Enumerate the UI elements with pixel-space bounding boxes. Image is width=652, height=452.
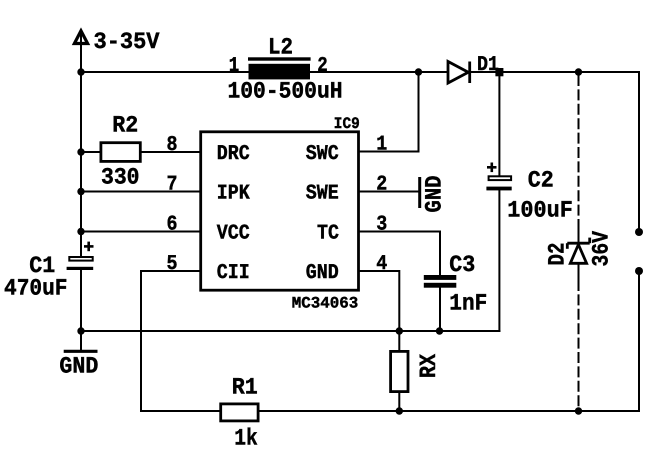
wire: RX branch from mid wire to bottom wire	[398, 331, 400, 411]
svg-text:TC: TC	[317, 222, 339, 245]
svg-text:CII: CII	[217, 262, 250, 285]
wire: top rail L2 left	[81, 71, 249, 73]
svg-text:1: 1	[229, 55, 240, 78]
node: zener branch / bottom wire junction	[575, 407, 582, 414]
svg-text:DRC: DRC	[217, 143, 250, 166]
svg-text:1nF: 1nF	[449, 291, 487, 317]
svg-text:8: 8	[167, 134, 178, 157]
wire: pin 3 TC to C3	[359, 232, 441, 275]
wire: bottom return wire	[141, 410, 639, 412]
wire: pin 6 VCC to rail	[81, 231, 201, 233]
IC9 box MC34063	[201, 132, 359, 290]
svg-text:GND: GND	[422, 175, 448, 212]
wire: right rail to + output terminal	[638, 72, 640, 232]
wire: dashed zener branch upper	[578, 76, 580, 224]
svg-text:C2: C2	[528, 167, 554, 193]
svg-text:6: 6	[167, 214, 178, 237]
node: rail / pin6 junction	[77, 228, 84, 235]
node: pin4 / RX / mid wire junction	[396, 327, 403, 334]
wire: GND stub below C1 junction	[80, 331, 82, 351]
capacitor C1	[67, 242, 94, 270]
svg-text:R2: R2	[112, 113, 138, 139]
svg-text:GND: GND	[306, 262, 339, 285]
terminal: output plus	[635, 228, 643, 236]
wire: zener D2 bottom lead	[578, 264, 580, 282]
wire: mid ground wire	[81, 330, 499, 332]
node: rail / R2 junction	[77, 148, 84, 155]
node: RX / bottom wire junction	[396, 407, 403, 414]
node: rail / pin7 junction	[77, 188, 84, 195]
svg-text:C3: C3	[449, 252, 475, 278]
wire: C2 top lead	[498, 72, 500, 176]
svg-text:5: 5	[167, 253, 178, 276]
svg-text:3-35V: 3-35V	[94, 29, 160, 55]
svg-text:36V: 36V	[589, 231, 615, 267]
svg-text:4: 4	[376, 253, 387, 276]
svg-text:GND: GND	[59, 353, 98, 379]
wire: pin 4 GND down to mid wire	[359, 271, 400, 331]
svg-text:SWC: SWC	[306, 143, 339, 166]
ground symbol (C1)	[64, 350, 98, 353]
svg-text:RX: RX	[416, 354, 442, 378]
svg-text:R1: R1	[232, 375, 258, 401]
wire: pin 1 SWC riser to top rail	[359, 72, 419, 152]
svg-text:IC9: IC9	[334, 115, 360, 133]
wire: pin 8 DRC through R2 to rail	[81, 151, 201, 153]
wire: C3 bottom lead	[439, 288, 441, 332]
resistor RX	[391, 351, 408, 391]
resistor R2	[101, 143, 140, 162]
wire: left input rail	[80, 33, 82, 257]
wire: right rail from - output terminal down	[638, 271, 640, 411]
node: C3 / mid wire junction	[436, 327, 443, 334]
node: C1 bottom / mid wire junction	[77, 327, 84, 334]
svg-text:L2: L2	[268, 35, 293, 61]
wire: D1 cathode to top right corner	[470, 71, 639, 73]
svg-text:VCC: VCC	[217, 222, 250, 245]
svg-text:3: 3	[376, 214, 387, 237]
svg-text:1k: 1k	[234, 426, 258, 452]
svg-text:D2: D2	[545, 243, 571, 266]
zener diode D2	[567, 238, 589, 264]
svg-text:IPK: IPK	[217, 182, 250, 205]
resistor R1	[221, 404, 258, 421]
wire: zener D2 top lead	[578, 224, 580, 244]
node: SWC riser / top wire junction	[415, 68, 422, 75]
capacitor C3	[424, 275, 457, 288]
wire: pin 5 CII to bottom wire	[141, 271, 201, 411]
inductor L2 body	[248, 57, 311, 79]
node: rail / top wire junction	[77, 68, 84, 75]
diode D1	[448, 62, 470, 84]
wire: pin 2 SWE to ground bar	[359, 191, 419, 193]
wire: C1 bottom lead	[80, 270, 82, 332]
wire: L2 to D1 anode	[310, 71, 449, 73]
wire: C2 bottom lead	[498, 191, 500, 332]
ground symbol (pin 2 SWE)	[418, 177, 421, 208]
svg-text:100-500uH: 100-500uH	[228, 79, 343, 105]
node: D1 cathode / C2 junction	[495, 68, 503, 76]
svg-text:7: 7	[167, 174, 178, 197]
svg-text:470uF: 470uF	[4, 276, 68, 302]
node: zener branch top junction	[575, 68, 582, 75]
svg-text:2: 2	[317, 55, 328, 78]
wire: pin 7 IPK to rail	[81, 191, 201, 193]
terminal: output minus	[635, 267, 643, 275]
svg-text:MC34063: MC34063	[292, 295, 359, 313]
capacitor C2	[486, 163, 511, 191]
svg-text:SWE: SWE	[306, 182, 339, 205]
svg-text:1: 1	[376, 134, 387, 157]
svg-text:2: 2	[376, 174, 387, 197]
svg-text:D1: D1	[477, 54, 499, 77]
power input terminal	[74, 31, 87, 44]
svg-text:100uF: 100uF	[507, 197, 573, 223]
svg-text:330: 330	[101, 165, 140, 191]
wire: dashed zener branch lower	[578, 281, 580, 408]
